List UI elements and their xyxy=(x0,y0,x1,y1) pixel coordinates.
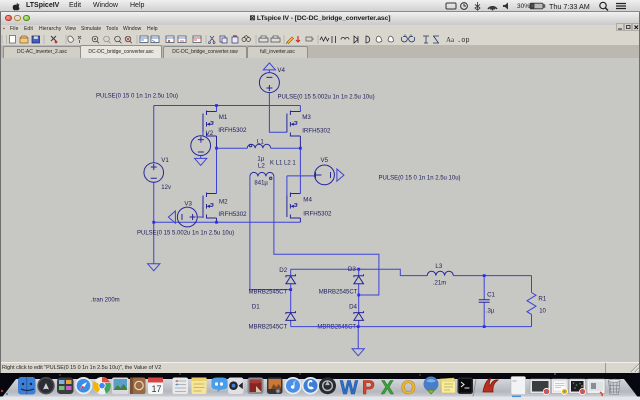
wire top rail V1/M1/M3 xyxy=(154,105,301,107)
svg-text:L2: L2 xyxy=(258,163,265,170)
svg-text:W: W xyxy=(340,378,358,399)
wire D2-D3 cathode rail xyxy=(291,268,359,270)
svg-text:IRFH5302: IRFH5302 xyxy=(302,128,331,135)
svg-text:.op: .op xyxy=(457,37,470,45)
mosfet M3 xyxy=(287,106,301,149)
wire L3 to C1 to R1 xyxy=(453,276,531,293)
svg-text:.3µ: .3µ xyxy=(486,309,495,315)
svg-text:D4: D4 xyxy=(349,304,357,311)
ground under bridge xyxy=(352,349,364,356)
wire V1 bottom lead xyxy=(153,182,155,222)
inductor L1 xyxy=(247,144,270,148)
wire V1 top lead xyxy=(153,106,155,163)
dark line above status bar xyxy=(0,361,640,364)
wire L2 right lead to D3 anode xyxy=(274,176,379,295)
wire V2 to ground xyxy=(200,156,202,159)
wire bottom-left source rail xyxy=(154,221,301,223)
svg-text:10: 10 xyxy=(539,309,546,315)
voltage source V2 (gate driver of M1) xyxy=(191,132,211,156)
inductor L2 xyxy=(250,172,274,179)
svg-text:IRFH5302: IRFH5302 xyxy=(218,127,247,134)
inductor L3 xyxy=(427,271,453,275)
svg-text:M3: M3 xyxy=(302,114,311,121)
svg-text:V3: V3 xyxy=(184,201,192,208)
svg-text:P: P xyxy=(362,378,375,399)
mosfet M1 xyxy=(203,106,217,149)
wire M1 source to L1 xyxy=(217,147,248,149)
svg-text:IRFH5302: IRFH5302 xyxy=(303,211,332,218)
svg-text:MBRB2545CT: MBRB2545CT xyxy=(249,289,288,295)
junction node V1 minus xyxy=(152,221,155,224)
diode D2 xyxy=(286,269,296,289)
svg-text:V4: V4 xyxy=(277,67,285,74)
mac menubar status icons (svg) xyxy=(440,0,640,12)
svg-text:D2: D2 xyxy=(279,267,287,274)
junction node M3 source / L1 xyxy=(299,147,302,150)
ground left of V3 xyxy=(168,211,175,223)
svg-text:C1: C1 xyxy=(487,291,495,298)
diode D1 xyxy=(286,290,296,327)
svg-text:PULSE(0 15 5.002u 1n 1n 2.5u 1: PULSE(0 15 5.002u 1n 1n 2.5u 10u) xyxy=(137,230,234,236)
svg-text:V2: V2 xyxy=(206,130,214,137)
wire to ground under bridge xyxy=(357,327,359,349)
ground above V4 xyxy=(263,63,275,70)
svg-text:IRFH5302: IRFH5302 xyxy=(218,211,247,218)
junction node C1 top xyxy=(483,274,486,277)
svg-text:MBRB2545CT: MBRB2545CT xyxy=(317,324,356,330)
svg-text:MBRB2545CT: MBRB2545CT xyxy=(249,324,288,330)
svg-text:Aa: Aa xyxy=(446,36,455,44)
svg-text:L1: L1 xyxy=(257,138,264,145)
junction node M1 drain xyxy=(215,104,218,107)
svg-text:X: X xyxy=(381,378,394,399)
window title bar xyxy=(0,12,640,26)
svg-text:R1: R1 xyxy=(538,296,546,303)
dark line under tab bar xyxy=(0,58,640,59)
svg-text:V1: V1 xyxy=(161,157,169,164)
svg-text:.21m: .21m xyxy=(433,281,446,287)
svg-text:D1: D1 xyxy=(252,304,260,311)
svg-text:12v: 12v xyxy=(161,185,171,191)
svg-text:17: 17 xyxy=(152,384,162,394)
wire L1 to M3 source node xyxy=(271,147,301,149)
svg-text:MBRB2545CT: MBRB2545CT xyxy=(319,290,358,296)
wire to ground under V1 xyxy=(153,222,155,264)
wire V4 to M3 gate xyxy=(269,93,287,133)
svg-text:.tran 200m: .tran 200m xyxy=(91,298,120,304)
macOS menu bar xyxy=(0,0,640,12)
diode D3 xyxy=(354,269,364,295)
svg-text:K L1 L2 1: K L1 L2 1 xyxy=(270,161,296,167)
wire bottom output rail xyxy=(291,326,532,328)
svg-text:M1: M1 xyxy=(219,114,228,121)
diode D4 xyxy=(354,295,364,327)
svg-text:PULSE(0 15 5.002u 1n 1n 2.5u 1: PULSE(0 15 5.002u 1n 1n 2.5u 10u) xyxy=(278,94,375,100)
LTSpice menu row xyxy=(0,25,640,33)
mosfet M4 xyxy=(287,148,301,222)
junction node D4 anode / ground xyxy=(357,325,360,328)
mosfet M2 xyxy=(203,148,217,222)
junction node M2 source xyxy=(215,221,218,224)
svg-text:L3: L3 xyxy=(435,263,442,270)
junction node C1 bottom xyxy=(483,325,486,328)
svg-text:M4: M4 xyxy=(303,197,312,204)
wire output rail to L3 xyxy=(359,269,428,275)
svg-text:V5: V5 xyxy=(321,157,329,164)
status-bar right corner resize grip xyxy=(629,362,640,373)
capacitor C1 xyxy=(479,276,490,327)
svg-text:D3: D3 xyxy=(348,266,356,273)
wire L2 left lead to D2 anode xyxy=(250,176,291,289)
svg-text:M2: M2 xyxy=(219,198,228,205)
junction node D3 cathode xyxy=(357,268,360,271)
ground under V2 xyxy=(195,158,207,165)
window side borders xyxy=(0,12,1,373)
status bar xyxy=(0,362,640,374)
voltage source V1 xyxy=(144,163,164,183)
ground right of V5 xyxy=(337,169,344,181)
junction node D3 anode / D4 cathode xyxy=(357,294,360,297)
MDI window buttons xyxy=(616,23,640,31)
desktop and dock xyxy=(0,373,640,400)
svg-text:PULSE(0 15 0 1n 1n 2.5u 10u): PULSE(0 15 0 1n 1n 2.5u 10u) xyxy=(96,93,178,99)
voltage source V5 (gate driver of M4) xyxy=(287,165,335,196)
junction node M1 source / L1 xyxy=(215,147,218,150)
voltage source V4 (gate driver of M3) xyxy=(259,70,279,93)
svg-text:841µ: 841µ xyxy=(254,181,268,187)
tab bar xyxy=(0,45,640,58)
toolbar icons xyxy=(0,34,640,45)
ground under V1 branch xyxy=(148,264,160,271)
svg-text:PULSE(0 15 0 1n 1n 2.5u 10u): PULSE(0 15 0 1n 1n 2.5u 10u) xyxy=(379,175,461,181)
junction node D2 anode xyxy=(289,288,292,291)
voltage source V3 (gate driver of M2) xyxy=(177,207,203,227)
resistor R1 xyxy=(527,293,536,327)
schematic canvas xyxy=(0,58,640,363)
svg-text:O: O xyxy=(401,378,416,399)
